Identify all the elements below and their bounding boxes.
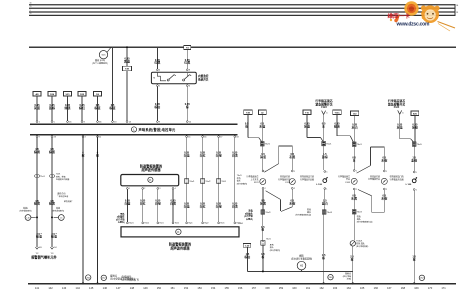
svg-text:145: 145: [89, 286, 94, 290]
sensor wire pin 1: [127, 188, 129, 190]
svg-text:T6z/2: T6z/2: [236, 223, 240, 225]
connector circle T10b: [350, 241, 355, 246]
svg-text:T6z/1: T6z/1: [220, 223, 224, 225]
svg-text:11: 11: [99, 136, 102, 138]
svg-text:白/黄: 白/黄: [232, 204, 238, 208]
svg-text:灰/棕: 灰/棕: [289, 201, 295, 205]
svg-text:156: 156: [238, 286, 243, 290]
wire to T13: [112, 47, 114, 120]
svg-text:接地点: 接地点: [110, 274, 118, 278]
svg-text:棕: 棕: [412, 257, 416, 261]
svg-text:143: 143: [62, 286, 67, 290]
svg-text:15: 15: [188, 136, 191, 138]
junction on horn wire: [262, 270, 264, 272]
Y fork right: [398, 110, 400, 114]
svg-text:灰/棕: 灰/棕: [381, 158, 387, 162]
svg-text:141: 141: [35, 286, 40, 290]
svg-text:154: 154: [211, 286, 216, 290]
svg-text:1/4: 1/4: [54, 247, 57, 249]
Y fork switch: [322, 111, 324, 115]
svg-text:146: 146: [103, 286, 108, 290]
inline connectors T2e: [35, 175, 38, 178]
svg-text:30: 30: [456, 5, 458, 7]
svg-text:棕: 棕: [81, 153, 85, 157]
terminal box pair left: [244, 110, 252, 114]
svg-text:157: 157: [252, 286, 257, 290]
svg-text:171: 171: [441, 286, 446, 290]
svg-text:灰/蓝: 灰/蓝: [397, 125, 403, 129]
svg-text:白/绿: 白/绿: [216, 204, 222, 208]
svg-text:白/黄: 白/黄: [232, 153, 238, 157]
svg-text:16: 16: [204, 136, 207, 138]
wire to ground right: [323, 272, 325, 284]
terminal box E26: [411, 111, 419, 115]
svg-text:棕: 棕: [185, 105, 189, 109]
wire switch supply: [156, 47, 158, 69]
svg-text:31: 31: [456, 12, 458, 14]
svg-text:T6s/1: T6s/1: [189, 181, 195, 183]
bus right ticks: [454, 4, 456, 16]
terminal box 32: [258, 110, 266, 114]
svg-text:T6u/3: T6u/3: [327, 212, 333, 214]
svg-text:T6v/1: T6v/1: [266, 239, 271, 241]
svg-text:162: 162: [319, 286, 324, 290]
sensor wire pin 2: [142, 188, 144, 190]
svg-text:K: K: [149, 178, 151, 182]
bus line X: [29, 11, 455, 13]
long wire to ground 1: [82, 137, 84, 284]
svg-text:棕/黑: 棕/黑: [48, 150, 55, 154]
svg-text:147: 147: [116, 286, 121, 290]
svg-text:1-50: 1-50: [245, 245, 250, 247]
svg-text:带背景灯的: 带背景灯的: [280, 175, 290, 179]
svg-text:2: 2: [294, 188, 295, 190]
svg-text:2: 2: [356, 189, 357, 191]
terminal box 4/8: [33, 92, 41, 97]
svg-text:148: 148: [130, 286, 135, 290]
bus line 31: [29, 14, 455, 16]
svg-text:F124: F124: [394, 106, 400, 109]
svg-text:163: 163: [333, 286, 338, 290]
svg-text:155: 155: [225, 286, 230, 290]
svg-text:灰/蓝: 灰/蓝: [34, 106, 40, 110]
svg-text:黑色: 黑色: [248, 209, 253, 213]
svg-text:31: 31: [30, 13, 32, 15]
svg-text:白/红: 白/红: [140, 201, 146, 205]
svg-text:白/绿: 白/绿: [155, 201, 161, 205]
svg-text:158: 158: [265, 286, 270, 290]
svg-text:声响系统(警报)电控单元: 声响系统(警报)电控单元: [138, 127, 177, 132]
svg-text:12: 12: [189, 121, 192, 123]
svg-text:红/黑: 红/黑: [154, 61, 160, 65]
strip wire 202.6: [202, 138, 204, 223]
svg-text:系统开关: 系统开关: [198, 78, 209, 82]
strip wire 218.6: [218, 138, 220, 223]
svg-text:连接: 连接: [56, 206, 60, 210]
svg-text:棕/白: 棕/白: [153, 105, 160, 109]
svg-text:1: 1: [294, 171, 295, 173]
svg-text:蓝/棕: 蓝/棕: [411, 158, 417, 162]
svg-text:T6s/2: T6s/2: [205, 181, 211, 183]
svg-text:白/蓝: 白/蓝: [184, 153, 190, 157]
svg-text:棕/蓝: 棕/蓝: [94, 106, 101, 110]
svg-text:L 108: L 108: [316, 184, 322, 186]
horn H12: [297, 261, 306, 270]
svg-text:带驾驶席边门的: 带驾驶席边门的: [300, 175, 314, 179]
svg-text:23: 23: [54, 136, 57, 138]
svg-text:164: 164: [347, 286, 352, 290]
strip wire 186.6: [186, 138, 188, 223]
svg-text:行李箱盖锁芯: 行李箱盖锁芯: [246, 175, 258, 179]
svg-text:黑色: 黑色: [270, 242, 274, 246]
watermark mascots: [390, 1, 455, 31]
svg-text:棕色: 棕色: [357, 215, 361, 219]
terminal box 1/26: [48, 92, 56, 97]
lower sensor long box: [127, 222, 129, 224]
svg-text:18: 18: [236, 136, 239, 138]
svg-text:2: 2: [386, 189, 387, 191]
svg-text:1: 1: [356, 170, 357, 172]
svg-text:棕/黄: 棕/黄: [33, 202, 40, 206]
svg-text:颜色连接*: 颜色连接*: [64, 199, 73, 203]
svg-text:接地点: 接地点: [345, 272, 351, 276]
svg-text:灰/黑: 灰/黑: [260, 201, 266, 205]
svg-text:T6v/5: T6v/5: [417, 144, 423, 146]
svg-text:151: 151: [170, 286, 175, 290]
svg-text:绿/黑: 绿/黑: [65, 106, 71, 110]
svg-text:T6v/3: T6v/3: [265, 212, 271, 214]
junction node: [126, 46, 128, 48]
svg-text:4: 4: [175, 188, 176, 190]
svg-text:灰: 灰: [322, 124, 325, 128]
svg-text:蓝/白: 蓝/白: [322, 201, 328, 205]
svg-text:T6x/1: T6x/1: [159, 223, 163, 225]
ground 252 left: [101, 275, 106, 280]
svg-text:棕/白: 棕/白: [243, 255, 250, 259]
svg-text:1: 1: [39, 121, 41, 123]
svg-text:15: 15: [30, 6, 32, 8]
wire via connector box: [126, 48, 128, 66]
sensor wire pin 3: [157, 188, 159, 190]
svg-text:棕/红: 棕/红: [78, 106, 85, 110]
svg-text:灰/蓝: 灰/蓝: [259, 124, 265, 128]
terminal arrows Y2 Y3: [35, 247, 37, 249]
svg-text:喇叭: 喇叭: [299, 254, 304, 258]
svg-text:170: 170: [428, 286, 433, 290]
svg-text:168: 168: [401, 286, 406, 290]
svg-text:T2f/1: T2f/1: [56, 174, 60, 176]
svg-text:灰/棕: 灰/棕: [412, 125, 418, 129]
svg-text:棕色: 棕色: [307, 207, 311, 211]
connector on feed line: [184, 45, 191, 49]
svg-text:159: 159: [279, 286, 284, 290]
svg-text:黑/蓝: 黑/蓝: [124, 59, 130, 63]
svg-text:棕: 棕: [244, 124, 248, 128]
terminal box B: [333, 110, 341, 114]
svg-text:T6w/2: T6w/2: [144, 223, 149, 225]
svg-text:报警器气喇叭元件: 报警器气喇叭元件: [31, 254, 57, 259]
svg-text:153: 153: [197, 286, 202, 290]
svg-text:1: 1: [416, 189, 417, 191]
svg-text:灰/黑: 灰/黑: [289, 155, 295, 159]
svg-text:150: 150: [157, 286, 162, 290]
horn actuator Y3 wire: [51, 138, 53, 248]
svg-text:1: 1: [159, 85, 160, 87]
svg-text:www.dzsc.com: www.dzsc.com: [396, 22, 430, 28]
svg-text:棕: 棕: [350, 257, 354, 261]
svg-text:2: 2: [144, 188, 145, 190]
svg-text:T10a: T10a: [335, 112, 341, 114]
svg-text:T6w/1: T6w/1: [129, 223, 134, 225]
svg-text:160: 160: [292, 286, 297, 290]
svg-text:b: b: [403, 112, 405, 114]
svg-text:棕: 棕: [95, 153, 99, 157]
svg-text:超声波传感器: 超声波传感器: [169, 246, 190, 251]
svg-text:T6v/1: T6v/1: [265, 144, 271, 146]
svg-text:带背景灯的: 带背景灯的: [370, 174, 380, 178]
switch E183 box: [151, 72, 196, 84]
svg-text:超声波传感器: 超声波传感器: [140, 167, 161, 172]
svg-text:3: 3: [159, 188, 160, 190]
svg-text:30: 30: [30, 3, 32, 5]
ground 250: [328, 275, 333, 280]
svg-text:蓝/棕: 蓝/棕: [49, 106, 55, 110]
sensor wire pin 4: [172, 188, 174, 190]
svg-text:144: 144: [76, 286, 81, 290]
svg-text:T6t/1: T6t/1: [221, 180, 226, 183]
switch box lower wires: [156, 87, 158, 121]
fuse S15 circle: [99, 51, 107, 59]
svg-text:T6y/1: T6y/1: [188, 223, 192, 225]
ground 252: [419, 275, 424, 280]
svg-text:14: 14: [129, 121, 132, 123]
ground point text: [352, 282, 354, 284]
terminal box 1/21: [64, 92, 72, 97]
svg-text:169: 169: [414, 286, 419, 290]
svg-text:棕: 棕: [261, 255, 265, 259]
svg-text:T10b/1: T10b/1: [356, 241, 363, 243]
ground 250 left: [86, 275, 91, 280]
svg-text:5: 5: [416, 172, 417, 174]
svg-text:F123: F123: [254, 182, 259, 184]
svg-text:9: 9: [159, 121, 161, 123]
terminal box 1/6: [94, 92, 102, 97]
svg-text:白/蓝: 白/蓝: [184, 204, 190, 208]
svg-text:棕/灰: 棕/灰: [333, 124, 340, 128]
svg-text:灰: 灰: [353, 158, 356, 162]
horn wire horizontal: [247, 270, 352, 272]
svg-text:F123: F123: [321, 106, 327, 109]
svg-text:1: 1: [129, 188, 130, 190]
svg-text:蓝/棕: 蓝/棕: [322, 155, 328, 159]
terminal box A: [303, 110, 311, 114]
svg-text:152: 152: [184, 286, 189, 290]
junction on bottom rail: [323, 282, 325, 284]
svg-text:灰/蓝: 灰/蓝: [260, 155, 266, 159]
svg-text:白/红: 白/红: [200, 204, 206, 208]
svg-text:棕/蓝: 棕/蓝: [35, 235, 42, 239]
svg-text:8: 8: [84, 121, 86, 123]
svg-text:4: 4: [159, 70, 160, 72]
svg-text:棕: 棕: [321, 256, 325, 260]
svg-text:6: 6: [189, 85, 190, 87]
svg-text:T6v/3: T6v/3: [357, 212, 363, 214]
svg-text:T6y/2: T6y/2: [204, 223, 208, 225]
svg-text:带驾驶席边门的: 带驾驶席边门的: [390, 175, 404, 179]
svg-text:棕/黄: 棕/黄: [33, 150, 40, 154]
svg-text:白/黄: 白/黄: [170, 201, 176, 205]
svg-text:66: 66: [99, 121, 102, 123]
svg-text:L 109: L 109: [406, 184, 412, 186]
svg-text:棕/黑: 棕/黑: [48, 202, 55, 206]
svg-text:1: 1: [326, 188, 327, 190]
svg-text:149: 149: [143, 286, 148, 290]
terminal box 1/22: [78, 92, 86, 97]
svg-text:T6s/1: T6s/1: [237, 175, 242, 177]
horn actuator Y2 wire: [36, 138, 38, 248]
svg-text:9: 9: [39, 136, 41, 138]
svg-text:棕/蓝: 棕/蓝: [50, 235, 57, 239]
long wire to ground 2: [97, 137, 99, 284]
svg-text:F165: F165: [345, 182, 350, 184]
svg-text:行李箱盖锁芯: 行李箱盖锁芯: [338, 174, 350, 178]
svg-text:T6v/1: T6v/1: [357, 144, 363, 146]
svg-text:棕: 棕: [261, 228, 265, 232]
svg-text:维库一卡: 维库一卡: [388, 12, 411, 20]
svg-text:165: 165: [360, 286, 365, 290]
bus line 30: [29, 4, 455, 6]
svg-text:电缆插头: 电缆插头: [122, 274, 133, 278]
svg-text:166: 166: [374, 286, 379, 290]
svg-text:2: 2: [85, 136, 87, 138]
svg-text:5: 5: [54, 121, 56, 123]
svg-text:4/2-: 4/2-: [39, 247, 42, 249]
svg-text:2: 2: [265, 188, 266, 190]
wire 30-feed horizontal: [29, 46, 456, 48]
svg-text:16: 16: [69, 121, 72, 123]
svg-text:灰/棕: 灰/棕: [381, 196, 387, 200]
strip lower pins: [36, 136, 38, 138]
strip wire 234.8: [234, 138, 236, 223]
bottom rail: [28, 283, 456, 285]
svg-text:1: 1: [386, 171, 387, 173]
svg-text:17: 17: [220, 136, 223, 138]
svg-text:8: 8: [189, 70, 190, 72]
bus line 15: [29, 7, 455, 9]
svg-text:b: b: [327, 113, 329, 115]
svg-text:黑色: 黑色: [120, 212, 125, 216]
svg-text:T6u/1: T6u/1: [326, 143, 332, 145]
svg-text:13: 13: [114, 121, 117, 123]
svg-text:棕/蓝: 棕/蓝: [109, 106, 116, 110]
svg-text:灰/蓝: 灰/蓝: [304, 124, 310, 128]
svg-text:白/蓝: 白/蓝: [124, 201, 130, 205]
svg-text:灰/白: 灰/白: [352, 125, 358, 129]
svg-text:白/红: 白/红: [200, 153, 206, 157]
svg-text:K: K: [177, 230, 179, 234]
svg-text:红/黑: 红/黑: [184, 61, 190, 65]
svg-text:167: 167: [387, 286, 392, 290]
svg-text:内置监控: 内置监控: [198, 74, 209, 78]
control unit J345 strip: [30, 123, 238, 125]
svg-text:142: 142: [48, 286, 53, 290]
svg-text:T2e/1: T2e/1: [40, 176, 45, 178]
svg-text:颜色节点: 颜色节点: [58, 192, 66, 196]
svg-text:161: 161: [306, 286, 311, 290]
svg-text:T6x/2: T6x/2: [175, 223, 179, 225]
svg-text:5: 5: [326, 171, 327, 173]
svg-text:灰/黑: 灰/黑: [351, 196, 357, 200]
svg-text:连接1: 连接1: [23, 206, 29, 210]
terminal box 132: [350, 111, 358, 115]
svg-text:白/绿: 白/绿: [216, 153, 222, 157]
